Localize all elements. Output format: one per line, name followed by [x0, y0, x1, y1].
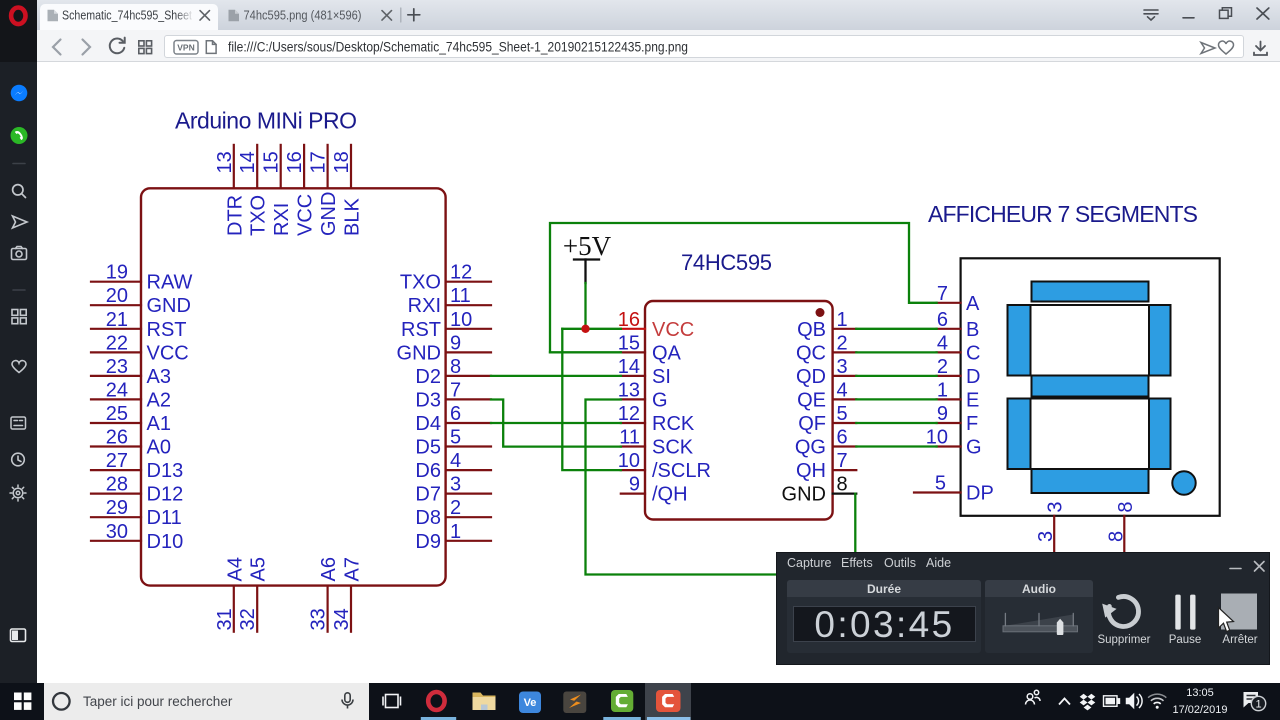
svg-text:G: G	[966, 437, 982, 459]
segment F (upper left bar)	[1008, 305, 1031, 376]
svg-text:4: 4	[450, 450, 461, 472]
svg-text:GND: GND	[397, 342, 441, 364]
svg-text:2: 2	[937, 356, 948, 378]
pin 33 A6 (Arduino bottom)	[308, 557, 341, 632]
component DS1 display body	[961, 258, 1220, 516]
svg-text:31: 31	[214, 608, 236, 630]
pin 17 GND (Arduino top)	[308, 145, 341, 236]
pin 24 A2 (Arduino left)	[91, 379, 171, 411]
svg-text:QH: QH	[796, 460, 826, 482]
taskbar S app icon	[563, 692, 586, 714]
svg-text:RXI: RXI	[271, 203, 293, 236]
download icon	[1254, 42, 1267, 56]
sidebar settings gear icon	[10, 485, 26, 501]
segment A (top bar)	[1032, 282, 1149, 302]
svg-text:A7: A7	[342, 557, 364, 581]
svg-text:11: 11	[450, 285, 471, 307]
pin 12 RCK (74HC595 left)	[618, 403, 695, 435]
tray people icon	[1026, 690, 1041, 704]
svg-text:D8: D8	[415, 507, 441, 529]
speed dial grid icon	[139, 41, 152, 54]
wire +5V to /SCLR pin 10	[562, 329, 621, 470]
search mic icon	[342, 693, 353, 709]
pin 8 D2 (Arduino right)	[415, 356, 491, 388]
pin 7 QH (74HC595 right)	[796, 450, 856, 482]
page doc icon	[206, 41, 216, 54]
svg-text:13: 13	[214, 151, 236, 173]
svg-text:D2: D2	[415, 366, 441, 388]
component U1 Arduino MINi PRO body	[141, 188, 446, 585]
taskbar opera active underline	[421, 717, 456, 720]
pin 19 RAW (Arduino left)	[91, 262, 193, 294]
svg-text:GND: GND	[782, 484, 826, 506]
pin 10 /SCLR (74HC595 left)	[618, 450, 711, 482]
pin 7 segment A (display left)	[937, 283, 980, 315]
new tab plus	[408, 9, 420, 21]
svg-text:29: 29	[106, 497, 128, 519]
svg-text:Arduino MINi PRO: Arduino MINi PRO	[175, 108, 357, 134]
svg-text:A4: A4	[224, 557, 246, 581]
browser top chrome	[0, 0, 1280, 30]
svg-text:15: 15	[618, 332, 640, 354]
sidebar my flow icon	[13, 216, 28, 228]
svg-text:GND: GND	[147, 295, 191, 317]
wire QA to display segment A (top rail)	[550, 223, 937, 352]
pin 20 GND (Arduino left)	[91, 285, 191, 317]
svg-text:E: E	[966, 389, 979, 411]
svg-text:4: 4	[837, 379, 848, 401]
pin 10 segment G (display left)	[926, 427, 982, 459]
upper segment frame	[1008, 305, 1171, 376]
svg-text:3: 3	[1045, 501, 1067, 512]
pin 6 D4 (Arduino right)	[415, 403, 491, 435]
svg-text:A1: A1	[147, 413, 171, 435]
pin 15 RXI (Arduino top)	[261, 145, 294, 236]
svg-text:17: 17	[308, 151, 330, 173]
pin 2 D8 (Arduino right)	[415, 497, 491, 529]
wire G pin 13 to ground (behind overlay)	[586, 400, 778, 575]
svg-text:1: 1	[450, 521, 461, 543]
taskbar Ve app icon	[519, 692, 541, 714]
sidebar snapshot camera icon	[12, 247, 27, 260]
pin 3 QD (74HC595 right)	[796, 356, 856, 388]
pin 2 segment D (display left)	[937, 356, 981, 388]
pin 16 VCC (Arduino top)	[284, 145, 317, 236]
wire QG to display segment G	[856, 445, 936, 447]
svg-text:GND: GND	[318, 192, 340, 236]
wire D2 to SI	[491, 375, 621, 377]
pin 27 D13 (Arduino left)	[91, 450, 183, 482]
pin 3 D7 (Arduino right)	[415, 474, 491, 506]
tray speaker icon	[1127, 694, 1143, 708]
svg-text:20: 20	[106, 285, 128, 307]
pause icon bars	[1175, 595, 1195, 630]
send to flow icon	[1201, 43, 1215, 54]
pin 10 RST (Arduino right)	[401, 309, 491, 341]
svg-text:SI: SI	[652, 366, 671, 388]
svg-text:F: F	[966, 413, 978, 435]
svg-text:QB: QB	[797, 319, 826, 341]
svg-text:A: A	[966, 293, 980, 315]
segment C (lower right bar)	[1149, 399, 1171, 470]
svg-text:1: 1	[937, 379, 948, 401]
pin 7 D3 (Arduino right)	[415, 379, 491, 411]
recorder minimize	[1230, 568, 1241, 570]
pin 1 D9 (Arduino right)	[415, 521, 491, 553]
sidebar search icon	[13, 185, 26, 198]
sidebar whatsapp icon	[11, 127, 28, 144]
sidebar speed dial icon	[12, 310, 26, 324]
tab separator	[400, 8, 402, 22]
svg-text:24: 24	[106, 379, 128, 401]
tab2 favicon	[229, 10, 240, 21]
U2 polarity dot marker	[816, 308, 825, 317]
svg-text:4: 4	[937, 332, 948, 354]
taskbar folder icon	[473, 693, 496, 711]
svg-text:10: 10	[618, 450, 640, 472]
svg-text:10: 10	[926, 427, 948, 449]
supprimer (delete) circular arrow icon	[1102, 597, 1138, 627]
svg-text:VCC: VCC	[295, 194, 317, 236]
wire QB to display segment B	[856, 328, 936, 330]
wire D4 to RCK	[491, 422, 621, 424]
taskbar	[0, 683, 1280, 720]
pin 21 RST (Arduino left)	[91, 309, 187, 341]
wire QA horizontal into pin 15	[550, 351, 621, 353]
wire QC to display segment C	[856, 351, 936, 353]
svg-text:7: 7	[450, 379, 461, 401]
taskbar C green app icon	[611, 690, 633, 712]
opera browser logo	[11, 8, 25, 25]
pin 28 D12 (Arduino left)	[91, 474, 183, 506]
segment D (bottom bar)	[1032, 469, 1149, 493]
svg-text:RCK: RCK	[652, 413, 695, 435]
pin 4 QE (74HC595 right)	[797, 379, 856, 411]
wire QE to display segment E	[856, 398, 936, 400]
svg-text:6: 6	[937, 309, 948, 331]
svg-text:9: 9	[937, 403, 948, 425]
VPN badge	[174, 41, 198, 55]
heart bookmark icon	[1218, 41, 1233, 54]
pin 16 VCC (74HC595 left)	[618, 309, 694, 341]
pin 12 TXO (Arduino right)	[400, 262, 491, 294]
taskbar opera icon	[428, 692, 444, 710]
svg-text:33: 33	[308, 608, 330, 630]
svg-text:3: 3	[837, 356, 848, 378]
tab1 favicon	[48, 10, 59, 21]
svg-text:9: 9	[629, 474, 640, 496]
pin 14 SI (74HC595 left)	[618, 356, 671, 388]
svg-text:A3: A3	[147, 366, 171, 388]
pin 8 GND (74HC595 right)	[782, 474, 857, 506]
svg-text:11: 11	[619, 427, 640, 449]
tray wifi icon	[1148, 694, 1166, 709]
svg-text:12: 12	[450, 262, 472, 284]
lower segment frame	[1008, 399, 1171, 470]
svg-text:10: 10	[450, 309, 472, 331]
sidebar history clock icon	[12, 453, 25, 466]
svg-text:27: 27	[106, 450, 128, 472]
svg-text:D9: D9	[415, 531, 441, 553]
svg-text:RST: RST	[401, 319, 441, 341]
svg-text:6: 6	[450, 403, 461, 425]
sidebar panel toggle icon	[11, 629, 26, 642]
svg-text:A5: A5	[248, 557, 270, 581]
svg-text:RST: RST	[147, 319, 187, 341]
pin 18 BLK (Arduino top)	[331, 145, 364, 236]
svg-text:D4: D4	[415, 413, 441, 435]
recorder overlay	[776, 552, 1270, 665]
svg-text:74HC595: 74HC595	[681, 250, 772, 275]
svg-text:QE: QE	[797, 389, 826, 411]
pin 5 DP (display left)	[914, 473, 994, 505]
svg-text:7: 7	[937, 283, 948, 305]
svg-text:DTR: DTR	[224, 195, 246, 236]
tray chevron up	[1059, 699, 1070, 705]
windows start button	[14, 693, 31, 710]
segment B (upper right bar)	[1149, 305, 1171, 376]
tray battery icon	[1104, 696, 1120, 707]
svg-text:DP: DP	[966, 483, 994, 505]
svg-text:A0: A0	[147, 437, 171, 459]
cortana search circle	[53, 693, 70, 710]
pin 1 segment E (display left)	[937, 379, 980, 411]
pin 9 GND (Arduino right)	[397, 332, 491, 364]
pin 31 A4 (Arduino bottom)	[214, 557, 247, 632]
svg-text:BLK: BLK	[342, 198, 364, 236]
svg-text:QC: QC	[796, 342, 826, 364]
svg-text:Ve: Ve	[524, 697, 537, 709]
svg-text:16: 16	[618, 309, 640, 331]
pin 8 common cathode (display bottom)	[1105, 501, 1137, 553]
svg-text:/SCLR: /SCLR	[652, 460, 711, 482]
svg-text:/QH: /QH	[652, 484, 688, 506]
pin 4 D6 (Arduino right)	[415, 450, 491, 482]
svg-text:9: 9	[450, 332, 461, 354]
pin 25 A1 (Arduino left)	[91, 403, 171, 435]
pin 5 QF (74HC595 right)	[798, 403, 856, 435]
svg-text:25: 25	[106, 403, 128, 425]
svg-text:1: 1	[1255, 699, 1261, 711]
svg-text:D10: D10	[147, 531, 184, 553]
svg-text:QA: QA	[652, 342, 682, 364]
reload icon	[110, 38, 125, 54]
sidebar messenger icon	[11, 85, 28, 102]
sidebar news icon	[11, 417, 26, 429]
tray dropbox icon	[1080, 694, 1096, 711]
pin 14 TXO (Arduino top)	[237, 145, 270, 236]
segment DP dot	[1172, 471, 1195, 494]
svg-text:28: 28	[106, 474, 128, 496]
+5V power symbol	[563, 231, 612, 283]
pin 26 A0 (Arduino left)	[91, 427, 171, 459]
svg-text:23: 23	[106, 356, 128, 378]
pin 3 common cathode (display bottom)	[1035, 501, 1067, 553]
svg-text:12: 12	[618, 403, 640, 425]
svg-text:34: 34	[331, 608, 353, 630]
svg-text:8: 8	[1115, 501, 1137, 512]
pin 23 A3 (Arduino left)	[91, 356, 171, 388]
wire QD to display segment D	[856, 375, 936, 377]
svg-text:13: 13	[618, 379, 640, 401]
svg-text:7: 7	[837, 450, 848, 472]
task view icon	[383, 695, 401, 708]
svg-text:5: 5	[837, 403, 848, 425]
svg-text:6: 6	[837, 427, 848, 449]
pin 9 segment F (display left)	[937, 403, 979, 435]
pin 11 SCK (74HC595 left)	[619, 427, 694, 459]
svg-text:5: 5	[450, 427, 461, 449]
svg-text:1: 1	[837, 309, 848, 331]
sidebar divider	[13, 163, 25, 165]
component U2 74HC595 body	[645, 301, 833, 520]
close button	[1257, 8, 1269, 19]
svg-text:D5: D5	[415, 437, 441, 459]
svg-text:3: 3	[450, 474, 461, 496]
svg-text:21: 21	[106, 309, 128, 331]
svg-text:5: 5	[935, 473, 946, 495]
pin 13 G (74HC595 left)	[618, 379, 668, 411]
svg-text:26: 26	[106, 427, 128, 449]
svg-text:16: 16	[284, 151, 306, 173]
wire D3 to SCK	[491, 400, 621, 447]
pin 13 DTR (Arduino top)	[214, 145, 247, 236]
tab2 close	[382, 11, 392, 21]
audio slider knob	[1057, 619, 1064, 635]
svg-text:18: 18	[331, 151, 353, 173]
svg-text:8: 8	[450, 356, 461, 378]
active camtasia recorder button	[645, 683, 691, 720]
svg-text:C: C	[966, 342, 980, 364]
svg-text:RAW: RAW	[147, 272, 193, 294]
svg-text:TXO: TXO	[248, 195, 270, 236]
svg-text:VCC: VCC	[147, 342, 189, 364]
svg-text:2: 2	[837, 332, 848, 354]
svg-text:14: 14	[618, 356, 640, 378]
wire +5V to VCC pin 16	[562, 328, 621, 330]
pin 15 QA (74HC595 left)	[618, 332, 682, 364]
pin 2 QC (74HC595 right)	[796, 332, 856, 364]
svg-text:RXI: RXI	[408, 295, 441, 317]
svg-text:SCK: SCK	[652, 437, 694, 459]
mouse cursor	[1219, 608, 1234, 632]
svg-text:AFFICHEUR 7 SEGMENTS: AFFICHEUR 7 SEGMENTS	[928, 201, 1198, 227]
pin 29 D11 (Arduino left)	[91, 497, 182, 529]
recorder close	[1255, 562, 1265, 572]
svg-text:QF: QF	[798, 413, 826, 435]
wire QF to display segment F	[856, 422, 936, 424]
svg-text:QG: QG	[795, 437, 826, 459]
pin 4 segment C (display left)	[937, 332, 981, 364]
svg-text:D12: D12	[147, 484, 184, 506]
svg-text:QD: QD	[796, 366, 826, 388]
audio meter graphic	[1003, 613, 1078, 631]
svg-text:15: 15	[261, 151, 283, 173]
restore button	[1220, 8, 1232, 19]
svg-text:A2: A2	[147, 389, 171, 411]
tab1 close	[200, 11, 210, 21]
svg-text:D7: D7	[415, 484, 441, 506]
stop (arreter) square icon	[1221, 594, 1257, 630]
svg-text:D: D	[966, 366, 980, 388]
pin 32 A5 (Arduino bottom)	[237, 557, 270, 632]
svg-text:A6: A6	[318, 557, 340, 581]
sidebar bookmarks heart icon	[12, 361, 26, 373]
svg-text:+5V: +5V	[563, 231, 612, 261]
pin 5 D5 (Arduino right)	[415, 427, 491, 459]
svg-text:8: 8	[837, 474, 848, 496]
svg-text:30: 30	[106, 521, 128, 543]
junction +5V node (red dot)	[581, 325, 589, 333]
pin 30 D10 (Arduino left)	[91, 521, 183, 553]
svg-text:G: G	[652, 389, 668, 411]
forward arrow (disabled)	[83, 40, 91, 55]
pin 22 VCC (Arduino left)	[91, 332, 189, 364]
pin 9 /QH (74HC595 left)	[621, 474, 688, 506]
svg-text:14: 14	[237, 151, 259, 173]
pin 6 segment B (display left)	[937, 309, 980, 341]
svg-text:D3: D3	[415, 389, 441, 411]
svg-text:VCC: VCC	[652, 319, 694, 341]
pin 1 QB (74HC595 right)	[797, 309, 856, 341]
pin 6 QG (74HC595 right)	[795, 427, 856, 459]
svg-text:D6: D6	[415, 460, 441, 482]
sidebar divider 2	[13, 289, 25, 291]
wire +5V lead (green part)	[584, 283, 586, 329]
svg-text:22: 22	[106, 332, 128, 354]
svg-text:8: 8	[1105, 531, 1127, 542]
pin 11 RXI (Arduino right)	[408, 285, 491, 317]
back arrow (disabled)	[53, 40, 61, 55]
tray notification icon	[1244, 692, 1266, 711]
svg-text:2: 2	[450, 497, 461, 519]
wire GND pin 8 down (behind overlay)	[854, 494, 856, 553]
svg-text:D13: D13	[147, 460, 184, 482]
svg-text:B: B	[966, 319, 979, 341]
opera menu icon	[1144, 10, 1158, 20]
segment E (lower left bar)	[1008, 399, 1031, 470]
svg-text:TXO: TXO	[400, 272, 441, 294]
svg-text:3: 3	[1035, 531, 1057, 542]
svg-text:19: 19	[106, 262, 128, 284]
segment G (middle bar)	[1032, 376, 1149, 397]
minimize button	[1183, 17, 1194, 19]
svg-text:D11: D11	[147, 507, 182, 529]
pin 34 A7 (Arduino bottom)	[331, 557, 364, 632]
svg-text:32: 32	[237, 608, 259, 630]
